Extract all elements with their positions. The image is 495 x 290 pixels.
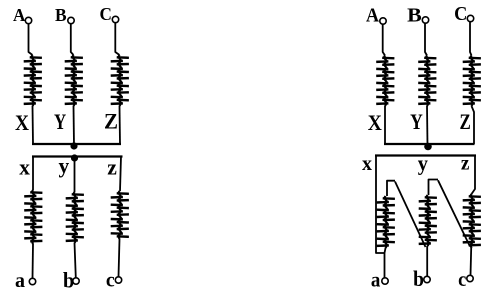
label x (right secondary): [362, 153, 372, 175]
wire winding C-Z to primary star bus (right, node Z): [472, 106, 475, 144]
label Y (left): [54, 109, 66, 134]
wire winding x-a to terminal a: [32, 244, 35, 278]
svg-text:a: a: [371, 268, 381, 290]
svg-text:Y: Y: [54, 109, 66, 134]
label Z (right): [460, 109, 471, 134]
label B (left primary terminal): [55, 5, 67, 25]
svg-text:A: A: [366, 5, 379, 27]
wire A terminal to winding A-X: [29, 24, 33, 55]
label c (right): [458, 267, 466, 290]
wire winding y bottom to terminal b (right): [426, 246, 428, 276]
primary neutral bus (right schematic): [384, 143, 475, 145]
winding A-X (left primary phase A): [24, 55, 42, 106]
svg-text:Z: Z: [460, 109, 471, 134]
secondary neutral bus (left schematic): [32, 155, 123, 157]
winding z (right secondary, right column): [463, 194, 481, 248]
label y (right secondary): [418, 151, 428, 176]
wire winding B-Y to primary star point (right): [426, 106, 429, 146]
label B (right primary terminal): [407, 5, 422, 27]
zigzag interconnection x to y (diagonal): [395, 182, 426, 248]
wire winding y-b to terminal b: [75, 243, 76, 278]
terminal b (right): [424, 276, 430, 282]
wire C terminal to winding C-Z: [115, 23, 119, 55]
wire winding A-X to primary star bus (node X): [32, 106, 35, 144]
svg-text:z: z: [461, 153, 470, 175]
wire secondary bus to winding z-c: [120, 157, 121, 192]
label Z (left): [104, 109, 118, 134]
junction: left secondary star point: [71, 154, 78, 161]
wire winding A-X to primary star bus (right, node X): [384, 106, 386, 144]
svg-text:c: c: [106, 268, 115, 290]
junction: left primary star point: [70, 142, 77, 149]
label x (left secondary): [19, 155, 30, 180]
svg-text:X: X: [368, 110, 382, 135]
svg-text:c: c: [458, 267, 466, 290]
terminal B (left): [68, 17, 74, 23]
wire B terminal to winding B-Y (right): [425, 23, 427, 55]
winding A-X (right primary phase A): [376, 56, 394, 107]
label C (left primary terminal): [100, 4, 112, 24]
wire secondary star point to winding y-b: [74, 158, 76, 192]
label X (right): [368, 110, 382, 135]
label X (left): [15, 110, 29, 135]
label z (left secondary): [107, 155, 117, 180]
terminal A (right): [380, 18, 386, 24]
svg-text:b: b: [63, 268, 74, 290]
wire winding z bottom to terminal c (right): [470, 248, 473, 275]
terminal a (left): [29, 278, 35, 284]
winding x-a (left secondary phase a): [24, 190, 42, 244]
terminal B (right): [422, 17, 428, 23]
secondary neutral bus (right schematic): [375, 154, 476, 156]
label a (left): [15, 268, 25, 290]
winding C-Z (left primary phase C): [111, 55, 129, 106]
label c (left): [106, 268, 115, 290]
terminal C (right): [467, 15, 473, 21]
svg-text:b: b: [413, 266, 424, 290]
wire C terminal to winding C-Z (right): [470, 22, 472, 56]
wire winding B-Y to primary star point: [73, 106, 76, 146]
label A (right primary terminal): [366, 5, 379, 27]
winding z-c (left secondary phase c): [111, 191, 129, 239]
terminal C (left): [112, 16, 118, 22]
wire secondary bus left end down to node a (right schematic): [376, 156, 384, 254]
wire winding C-Z to primary star bus (node Z): [119, 106, 122, 144]
svg-text:C: C: [100, 4, 112, 24]
svg-text:Z: Z: [104, 109, 118, 134]
label b (right): [413, 266, 424, 290]
wire secondary bus to winding x-a: [32, 157, 34, 191]
half-winding top link of phase y (stub and hat): [429, 180, 439, 196]
winding y (right secondary, middle column): [419, 195, 437, 246]
terminal A (left): [25, 17, 31, 23]
svg-text:x: x: [19, 155, 30, 180]
winding y-b (left secondary phase b): [66, 192, 84, 243]
label C (right primary terminal): [454, 3, 467, 25]
svg-text:y: y: [418, 151, 428, 176]
terminal a (right): [382, 278, 388, 284]
wire B terminal to winding B-Y: [71, 24, 74, 55]
winding C-Z (right primary phase C): [463, 56, 481, 107]
svg-text:B: B: [407, 5, 422, 27]
wire winding z-c to terminal c: [119, 239, 120, 277]
label y (left secondary): [59, 153, 70, 178]
terminal c (left): [115, 277, 121, 283]
label Y (right): [410, 109, 423, 134]
svg-text:A: A: [13, 5, 25, 25]
winding B-Y (left primary phase B): [65, 55, 83, 106]
primary neutral bus (left schematic): [32, 143, 121, 145]
label z (right secondary): [461, 153, 470, 175]
terminal c (right): [467, 275, 473, 281]
svg-text:B: B: [55, 5, 67, 25]
zigzag interconnection y to z (diagonal): [438, 180, 470, 246]
wire A terminal to winding A-X (right): [383, 24, 385, 55]
label A (left primary terminal): [13, 5, 25, 25]
wire winding x bottom to terminal a (right): [385, 248, 386, 278]
half-winding top link of phase x (stub and hat): [387, 181, 395, 196]
svg-text:y: y: [59, 153, 70, 178]
svg-text:x: x: [362, 153, 372, 175]
svg-text:Y: Y: [410, 109, 423, 134]
svg-text:z: z: [107, 155, 117, 180]
svg-text:C: C: [454, 3, 467, 25]
junction: right primary star point: [424, 143, 432, 151]
label a (right): [371, 268, 381, 290]
svg-text:a: a: [15, 268, 25, 290]
winding B-Y (right primary phase B): [418, 56, 436, 107]
svg-text:X: X: [15, 110, 29, 135]
winding x (right secondary, left column): [377, 196, 395, 248]
wire secondary bus right end down to winding z top: [472, 156, 476, 195]
terminal b (left): [73, 278, 79, 284]
label b (left): [63, 268, 74, 290]
